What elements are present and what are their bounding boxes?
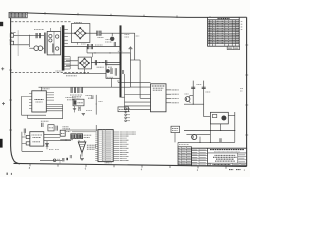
- svg-text:D: D: [208, 162, 210, 166]
